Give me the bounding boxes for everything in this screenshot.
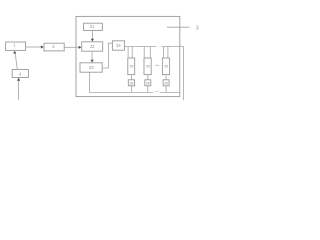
- tap manifold to rect 35a right: [131, 47, 133, 58]
- tap manifold to rect 35c right: [167, 47, 169, 58]
- ellipsis on bus gap: [153, 90, 156, 93]
- svg-text:36: 36: [129, 81, 133, 85]
- stub square 36a to bus: [130, 86, 132, 93]
- tap manifold to rect 35a left: [127, 47, 129, 58]
- square 36a: [128, 80, 134, 86]
- svg-text:32: 32: [90, 44, 95, 49]
- svg-text:31: 31: [90, 24, 95, 29]
- arrowhead box 31 to 32: [91, 39, 94, 42]
- box 32: [82, 42, 103, 51]
- svg-text:35: 35: [129, 64, 133, 68]
- tall rect 35a: [128, 58, 135, 75]
- wire box 33 to box 34 via riser: [102, 43, 112, 68]
- manifold from box 34 left segment: [124, 46, 156, 48]
- box 34: [112, 41, 124, 50]
- stub square 36b to bus: [147, 86, 149, 93]
- arrowhead into box 1 bottom: [13, 51, 16, 54]
- wire box 33 bottom to bus: [89, 72, 91, 92]
- svg-text:35: 35: [164, 64, 168, 68]
- manifold right segment exits box 3 and runs off bottom: [162, 47, 184, 100]
- wire box 2 to box 32: [64, 46, 79, 48]
- tall rect 35c: [162, 58, 169, 75]
- tall rect 35b: [144, 58, 151, 75]
- svg-text:33: 33: [89, 65, 94, 70]
- stub rect 35c to square 36c: [165, 75, 167, 80]
- bus line left segment: [90, 91, 154, 93]
- wire box 31 to box 32: [91, 31, 93, 40]
- tap manifold to rect 35b left: [143, 47, 145, 58]
- stub rect 35b to square 36b: [147, 75, 149, 80]
- faint dots on manifold gap: [156, 45, 159, 48]
- tap manifold to rect 35c left: [162, 47, 164, 58]
- box 4: [12, 70, 28, 78]
- svg-text:36: 36: [164, 81, 168, 85]
- arrowhead into box 32 left: [79, 46, 82, 49]
- svg-text:34: 34: [116, 43, 121, 48]
- wire box 32 to box 33: [91, 51, 93, 60]
- svg-text:36: 36: [146, 81, 150, 85]
- box 31: [84, 23, 103, 30]
- wire box 1 to box 2: [26, 46, 42, 48]
- wire input from bottom into box 4: [18, 81, 20, 100]
- arrowhead box 32 to 33: [91, 60, 94, 63]
- arrowhead into box 2 left: [41, 45, 44, 48]
- svg-text:3: 3: [196, 25, 199, 31]
- outer box 3: [76, 16, 180, 96]
- tap manifold to rect 35b right: [149, 47, 151, 58]
- box 33: [80, 63, 102, 72]
- stub square 36c to bus: [165, 86, 167, 93]
- box 2: [44, 43, 64, 51]
- square 36c: [163, 80, 169, 86]
- bus line right segment: [160, 91, 180, 93]
- ellipsis between units mid height: [155, 65, 156, 66]
- stub rect 35a to square 36a: [130, 75, 132, 80]
- wire box 4 to box 1: [15, 53, 17, 69]
- square 36b: [145, 80, 151, 86]
- box 1: [6, 42, 26, 50]
- svg-text:35: 35: [146, 64, 150, 68]
- lead line for label 3: [167, 26, 190, 28]
- arrowhead into box 4 bottom: [17, 78, 20, 81]
